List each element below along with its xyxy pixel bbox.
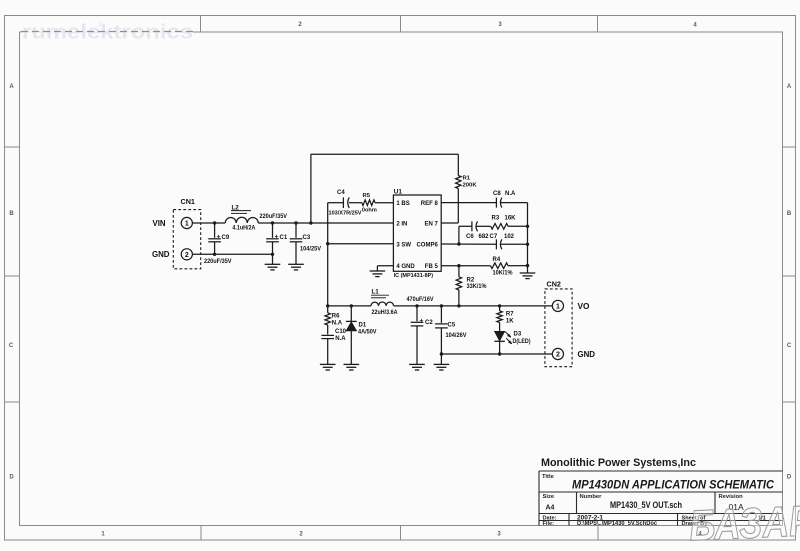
wire R3 to rail — [508, 225, 527, 227]
wire GND pin — [377, 265, 393, 267]
svg-text:220uF/35V: 220uF/35V — [204, 259, 232, 265]
svg-text:+: + — [420, 317, 424, 324]
node rail R4 — [526, 264, 529, 267]
wire D3 to gnd line — [499, 341, 501, 354]
capacitor C4 — [342, 197, 344, 208]
svg-text:200K: 200K — [463, 182, 478, 188]
svg-text:R4: R4 — [493, 257, 501, 263]
LED D3 — [494, 331, 504, 341]
wire rail to D1 — [350, 306, 352, 322]
node C1 top — [271, 221, 274, 224]
svg-text:D:\MPS\..\MP1430_5V.SchDoc: D:\MPS\..\MP1430_5V.SchDoc — [577, 520, 658, 527]
svg-text:R5: R5 — [363, 193, 371, 199]
wire rail to R7 — [499, 306, 501, 311]
wire SW corner to L1 — [328, 305, 371, 307]
svg-text:FB 5: FB 5 — [425, 264, 439, 270]
capacitor C8 — [495, 198, 497, 208]
svg-text:C3: C3 — [303, 235, 311, 241]
svg-text:C2: C2 — [425, 320, 433, 326]
CN2 pin 1 circle — [552, 300, 563, 311]
node D1 — [350, 304, 353, 307]
svg-text:C8: C8 — [493, 191, 501, 197]
svg-text:C1: C1 — [280, 235, 288, 241]
node SW junction — [326, 242, 329, 245]
resistor R1 — [456, 176, 461, 189]
resistor R2 — [456, 277, 461, 290]
wire R1 to EN — [457, 189, 459, 224]
wire CN1 pin1 to L2 — [192, 222, 225, 224]
svg-text:220uF/35V: 220uF/35V — [260, 214, 288, 220]
svg-text:+: + — [275, 233, 279, 240]
inductor L2 — [225, 217, 258, 223]
ground below C3 — [288, 263, 304, 265]
watermark BAZAR — [688, 497, 800, 550]
node R7 — [498, 304, 501, 307]
svg-text:103/X7R/25V: 103/X7R/25V — [329, 211, 362, 217]
svg-text:4 GND: 4 GND — [396, 264, 415, 270]
svg-text:A4: A4 — [546, 505, 555, 512]
wire BS loop down to SW — [327, 203, 329, 306]
wire CN1 pin2 ground bus — [192, 253, 272, 255]
ground below C1 — [265, 263, 281, 265]
capacitor C1 — [272, 223, 274, 238]
svg-text:VO: VO — [578, 302, 590, 311]
ground below C10 — [320, 363, 336, 365]
svg-text:C: C — [787, 343, 792, 349]
svg-text:4A/50V: 4A/50V — [358, 330, 377, 336]
watermark rumelektronics — [21, 20, 193, 42]
svg-text:A: A — [9, 84, 14, 90]
svg-text:REF 8: REF 8 — [421, 201, 439, 207]
ground U1 pin4 — [370, 270, 386, 272]
svg-text:16K: 16K — [505, 216, 517, 222]
svg-text:2 IN: 2 IN — [396, 222, 407, 228]
svg-text:CN2: CN2 — [547, 279, 561, 288]
svg-text:104/25V: 104/25V — [300, 246, 321, 252]
svg-text:D3: D3 — [514, 332, 522, 338]
svg-text:R7: R7 — [506, 312, 514, 318]
svg-text:U1: U1 — [394, 188, 403, 195]
svg-text:GND: GND — [578, 350, 596, 359]
wire C7 to rail — [501, 243, 528, 245]
svg-text:C9: C9 — [222, 235, 230, 241]
wire R4 to rail — [508, 265, 528, 267]
resistor R3 — [491, 224, 508, 230]
wire down to R1 — [457, 154, 459, 175]
top zone ticks — [200, 16, 202, 33]
ground below D1 — [344, 363, 360, 365]
wire L2 to U1 IN — [258, 222, 393, 224]
node C1 bottom — [271, 253, 274, 256]
wire rail to R6 — [327, 306, 329, 313]
svg-text:R3: R3 — [492, 216, 500, 222]
svg-text:CN1: CN1 — [181, 197, 195, 206]
ground right rail — [520, 272, 536, 274]
title block border — [539, 470, 783, 472]
node rail corner R6 — [326, 304, 329, 307]
svg-text:C6: C6 — [466, 234, 474, 240]
svg-text:1: 1 — [185, 221, 189, 228]
node C5 — [440, 304, 443, 307]
svg-text:102: 102 — [504, 234, 515, 240]
connector CN1 dashed box — [173, 210, 200, 269]
resistor R7 — [497, 311, 502, 323]
svg-text:R2: R2 — [467, 277, 475, 283]
svg-text:A: A — [787, 84, 792, 90]
wire right rail vertical — [527, 203, 529, 273]
node rail R3 — [526, 225, 529, 228]
wire R2 to output rail — [458, 290, 460, 306]
svg-text:2: 2 — [556, 352, 560, 359]
resistor R5 — [362, 200, 375, 206]
svg-text:10K/1%: 10K/1% — [493, 270, 514, 276]
CN2 pin 2 circle — [552, 348, 563, 359]
svg-text:N.A: N.A — [505, 191, 516, 197]
capacitor C10 — [321, 334, 334, 336]
node rail C7 — [526, 243, 529, 246]
svg-text:C: C — [9, 343, 14, 349]
left zone ticks — [5, 146, 20, 148]
node FB junction — [457, 264, 460, 267]
wire R6 to C10 — [327, 325, 329, 334]
wire C4 to SW loop — [328, 202, 344, 204]
node VIN junction C9 — [213, 221, 216, 224]
svg-text:470uF/16V: 470uF/16V — [407, 297, 434, 303]
CN1 pin 1 circle — [181, 217, 192, 228]
svg-text:MP1430DN APPLICATION SCHEMATIC: MP1430DN APPLICATION SCHEMATIC — [572, 477, 774, 491]
svg-text:C10: C10 — [335, 329, 347, 335]
ground below C2 — [409, 363, 425, 365]
svg-text:IC (MP1431-8P): IC (MP1431-8P) — [394, 273, 434, 279]
ground below C5 — [434, 363, 450, 365]
right zone ticks — [783, 146, 796, 148]
svg-text:1: 1 — [556, 304, 560, 311]
svg-text:B: B — [787, 211, 792, 217]
svg-text:22uH/3.6A: 22uH/3.6A — [372, 310, 399, 316]
inductor L1 — [371, 302, 394, 306]
wire C10 to ground — [327, 339, 329, 365]
svg-text:2: 2 — [185, 252, 189, 259]
svg-text:L1: L1 — [372, 289, 380, 296]
CN1 pin 2 circle — [181, 249, 192, 260]
svg-text:VIN: VIN — [153, 219, 166, 228]
svg-text:3 SW: 3 SW — [396, 243, 411, 249]
wire output gnd to CN2 pin2 — [441, 353, 552, 355]
capacitor C7 — [495, 239, 497, 249]
node C9 bottom — [213, 253, 216, 256]
wire COMP up branch — [458, 226, 460, 244]
wire top loop horizontal — [311, 153, 458, 155]
resistor R4 — [491, 263, 509, 269]
svg-text:GND: GND — [152, 250, 170, 259]
wire D1 to ground — [350, 331, 352, 364]
diode D1 — [346, 320, 357, 322]
svg-text:1K: 1K — [506, 319, 514, 325]
connector CN2 dashed box — [545, 289, 572, 367]
svg-text:33K/1%: 33K/1% — [467, 284, 488, 290]
node R2 bottom — [457, 304, 460, 307]
svg-text:B: B — [9, 211, 14, 217]
bottom zone ticks — [200, 526, 202, 541]
svg-text:C7: C7 — [490, 234, 498, 240]
wire C8 to gnd rail — [501, 202, 528, 204]
wire FB pin — [441, 265, 490, 267]
wire R7 to D3 — [499, 323, 501, 332]
wire C6 to R3 — [477, 225, 491, 227]
node C3 top — [294, 221, 297, 224]
node LED bottom — [498, 352, 501, 355]
svg-text:D(LED): D(LED) — [513, 339, 531, 345]
svg-text:EN 7: EN 7 — [424, 222, 438, 228]
node C5 gnd branch — [440, 352, 443, 355]
capacitor C3 — [295, 223, 297, 238]
wire L1 to CN2 pin1 — [394, 305, 553, 307]
node COMP junction — [457, 242, 460, 245]
svg-text:D: D — [787, 475, 792, 481]
svg-text:COMP6: COMP6 — [416, 243, 438, 249]
svg-text:0ohm: 0ohm — [362, 208, 377, 214]
svg-text:Size: Size — [543, 494, 555, 500]
svg-text:R6: R6 — [332, 314, 340, 320]
capacitor C5 — [440, 306, 442, 323]
wire SW pin — [328, 243, 394, 245]
capacitor C9 — [214, 223, 216, 238]
capacitor C6 — [471, 221, 473, 231]
svg-text:Title: Title — [542, 474, 555, 480]
svg-text:Revision: Revision — [719, 494, 744, 500]
node C2 — [415, 304, 418, 307]
capacitor C2 — [416, 306, 418, 321]
svg-text:MP1430_5V OUT.sch: MP1430_5V OUT.sch — [610, 500, 682, 511]
svg-text:N.A: N.A — [335, 336, 346, 342]
svg-text:C4: C4 — [337, 190, 345, 196]
resistor R6 — [325, 313, 330, 325]
svg-text:R1: R1 — [463, 176, 471, 182]
wire REF pin to C8 — [441, 202, 496, 204]
svg-text:File:: File: — [543, 521, 555, 527]
wire FB to R2 — [458, 266, 460, 277]
svg-text:Number: Number — [580, 494, 603, 500]
node IN/EN-loop junction — [309, 221, 312, 224]
wire R5 to C4 — [349, 202, 362, 204]
wire BS pin to R5 — [375, 202, 393, 204]
svg-text:Monolithic Power Systems,Inc: Monolithic Power Systems,Inc — [541, 457, 696, 469]
svg-text:682: 682 — [479, 234, 490, 240]
op-amp U1 MP1430 body — [393, 195, 441, 271]
svg-text:C5: C5 — [448, 323, 456, 329]
svg-text:1 BS: 1 BS — [396, 201, 409, 207]
svg-text:БАЗАР: БАЗАР — [688, 497, 800, 550]
svg-text:4.1uH/2A: 4.1uH/2A — [232, 226, 256, 232]
svg-text:104/26V: 104/26V — [446, 333, 467, 339]
svg-text:+: + — [217, 233, 221, 240]
svg-text:D: D — [9, 475, 14, 481]
wire VIN node up — [310, 154, 312, 223]
svg-text:D1: D1 — [359, 322, 367, 328]
wire COMP pin — [441, 243, 496, 245]
svg-text:N.A: N.A — [332, 320, 343, 326]
